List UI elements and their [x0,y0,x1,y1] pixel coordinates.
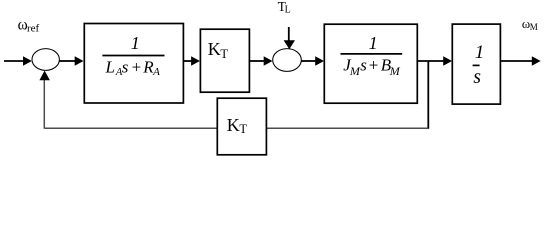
svg-text:+: + [368,55,379,74]
svg-text:s: s [122,57,129,76]
svg-text:T: T [220,47,228,61]
svg-text:K: K [208,39,221,59]
svg-text:s: s [473,67,481,88]
svg-text:T: T [239,122,247,136]
svg-text:M: M [389,64,401,78]
svg-text:K: K [227,115,240,135]
svg-text:s: s [360,55,367,74]
svg-text:L: L [285,5,291,16]
svg-text:L: L [105,57,115,76]
svg-text:M: M [530,22,538,32]
svg-text:M: M [349,64,361,78]
svg-text:1: 1 [131,33,140,53]
svg-text:ref: ref [27,23,40,35]
svg-text:1: 1 [369,33,378,53]
svg-text:A: A [152,66,160,78]
svg-text:+: + [131,57,142,76]
svg-text:1: 1 [475,42,485,63]
